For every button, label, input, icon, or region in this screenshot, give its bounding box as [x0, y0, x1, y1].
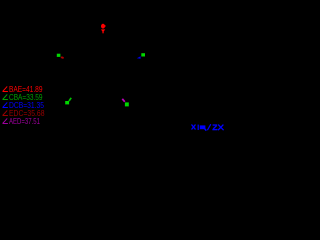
point B (green square, lower-left vertex) [65, 101, 69, 104]
measurement line 1: angle BAE = 41.89 (red) [3, 85, 43, 94]
point D (green square, upper-left vertex) [57, 54, 61, 57]
measurement line 2: angle CBA = 33.59 (green) [3, 93, 43, 102]
watermark glyph cluster 2 (blue CJK-like block with descender) [198, 125, 207, 131]
measurement line 5: angle AED = 37.51 (purple) [3, 117, 41, 126]
angle marker at C (blue wedge, angle DCB) [137, 56, 141, 59]
angle marker at A (red wedge, angle BAE) [101, 29, 105, 32]
watermark slash [207, 124, 210, 130]
point C (green square, upper-right vertex) [141, 53, 145, 56]
angle marker at D (maroon wedge, angle EDC) [60, 56, 64, 59]
measurement line 4: angle EDC = 35.68 (maroon) [3, 109, 45, 118]
svg-text:AED=37.51: AED=37.51 [9, 117, 40, 126]
angle marker at E (magenta wedge, angle AED) [122, 99, 125, 102]
measurement line 3: angle DCB = 31.35 (blue) [3, 101, 45, 110]
point A (red, top vertex) [101, 24, 106, 29]
watermark glyph 1 (blue X-like character) [192, 125, 196, 130]
watermark glyph cluster 3 (blue CJK-like block) [212, 124, 223, 130]
point E (green square, lower-right vertex) [125, 102, 129, 106]
angle marker at B (green wedge, angle CBA) [69, 98, 71, 101]
